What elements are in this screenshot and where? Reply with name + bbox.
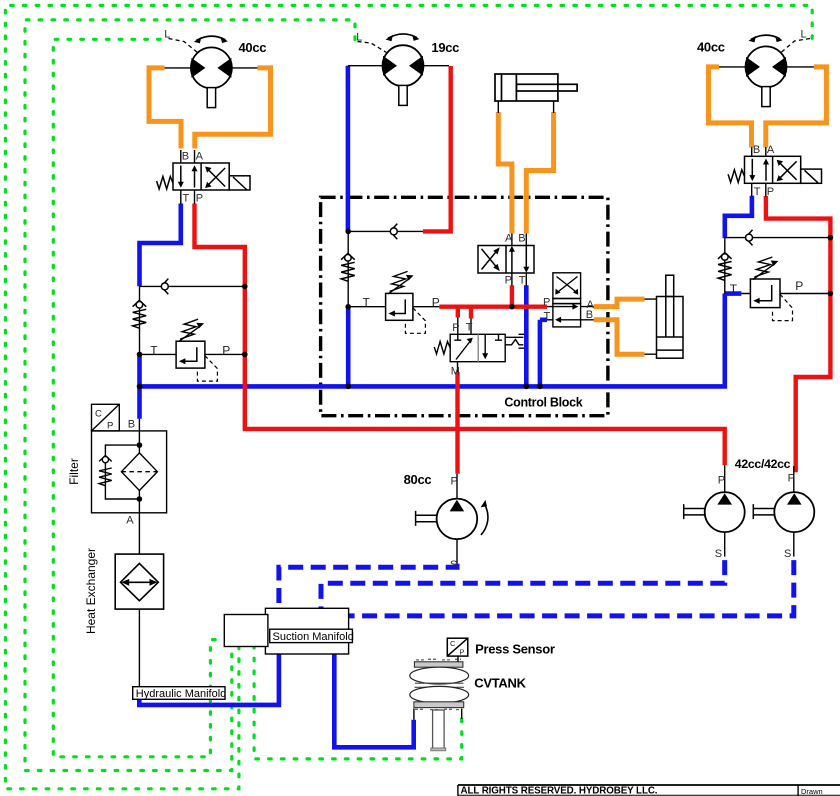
- svg-text:S: S: [784, 548, 791, 560]
- svg-text:L: L: [164, 29, 170, 41]
- svg-text:B: B: [518, 233, 525, 245]
- svg-text:A: A: [767, 144, 775, 156]
- svg-text:40cc: 40cc: [697, 40, 725, 55]
- svg-text:P: P: [107, 421, 113, 432]
- svg-text:S: S: [450, 559, 457, 571]
- svg-text:Filter: Filter: [67, 458, 81, 485]
- svg-text:P: P: [451, 475, 458, 487]
- svg-text:Hydraulic Manifold: Hydraulic Manifold: [136, 688, 226, 700]
- svg-text:P: P: [432, 296, 440, 310]
- svg-text:T: T: [519, 275, 526, 287]
- svg-text:B: B: [586, 309, 593, 321]
- svg-text:42cc/42cc: 42cc/42cc: [735, 457, 791, 471]
- svg-text:B: B: [182, 150, 189, 162]
- svg-text:CVTANK: CVTANK: [474, 676, 526, 691]
- svg-text:Drawn: Drawn: [801, 787, 823, 796]
- svg-text:C: C: [450, 639, 456, 648]
- svg-text:B: B: [128, 419, 135, 431]
- svg-text:P: P: [460, 648, 465, 657]
- svg-text:M: M: [451, 366, 460, 378]
- svg-text:P: P: [795, 279, 803, 293]
- svg-text:40cc: 40cc: [239, 40, 267, 55]
- svg-text:Suction Manifold: Suction Manifold: [273, 631, 354, 643]
- svg-text:T: T: [150, 344, 158, 358]
- svg-text:ALL RIGHTS RESERVED. HYDROBEY: ALL RIGHTS RESERVED. HYDROBEY LLC.: [461, 785, 658, 796]
- svg-text:Heat Exchanger: Heat Exchanger: [84, 548, 98, 634]
- svg-text:A: A: [505, 232, 513, 244]
- svg-text:Press Sensor: Press Sensor: [475, 642, 555, 657]
- svg-text:P: P: [196, 193, 203, 205]
- svg-text:Control Block: Control Block: [504, 395, 582, 409]
- svg-text:A: A: [126, 514, 134, 526]
- svg-text:T: T: [544, 310, 551, 322]
- svg-text:T: T: [730, 282, 738, 296]
- svg-text:C: C: [95, 409, 102, 420]
- svg-text:T: T: [466, 322, 473, 334]
- svg-text:B: B: [753, 144, 760, 156]
- svg-text:P: P: [788, 472, 795, 484]
- svg-text:L: L: [356, 32, 362, 44]
- svg-text:S: S: [715, 548, 722, 560]
- svg-text:19cc: 19cc: [431, 40, 459, 55]
- svg-text:P: P: [505, 275, 512, 287]
- svg-text:A: A: [196, 150, 204, 162]
- svg-text:T: T: [183, 193, 190, 205]
- svg-text:P: P: [222, 344, 230, 358]
- svg-text:80cc: 80cc: [404, 472, 432, 487]
- svg-text:P: P: [767, 186, 774, 198]
- svg-text:T: T: [363, 296, 371, 310]
- svg-text:T: T: [754, 186, 761, 198]
- svg-text:P: P: [718, 474, 725, 486]
- svg-text:P: P: [452, 322, 459, 334]
- svg-text:L: L: [801, 28, 807, 40]
- svg-text:P: P: [543, 297, 550, 309]
